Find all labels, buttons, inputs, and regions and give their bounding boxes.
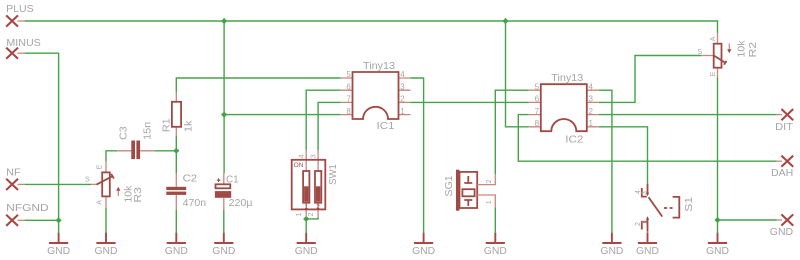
svg-text:4: 4 [299,154,306,158]
wire SW1 pin2 to junction [306,217,318,219]
wire IC1 pin6 to SW1 pin4 [306,90,340,150]
wire NFGND net [25,219,59,221]
capacitor C3 [117,122,155,159]
ground GND 8 [600,233,623,257]
node DIT [775,109,793,133]
wire IC1 pin4 to GND [411,78,424,233]
node MINUS [6,38,41,59]
node junction V+ right [502,18,508,24]
svg-text:MINUS: MINUS [6,38,40,49]
resistor R1 [161,93,194,136]
svg-text:3: 3 [400,82,405,91]
svg-text:1: 1 [296,213,303,217]
wire R1 top to IC1 pin5 [176,78,340,93]
svg-text:8: 8 [535,119,540,128]
node junction C3/R1/C2 [173,148,179,154]
svg-text:GND: GND [295,246,318,257]
node junction NFGND [56,217,62,223]
IC IC2 Tiny13 [529,73,599,145]
svg-text:IC1: IC1 [377,121,395,132]
svg-text:6: 6 [535,95,540,104]
svg-text:6: 6 [346,82,351,91]
svg-text:GND: GND [770,227,793,238]
ground GND 6 [412,233,435,257]
svg-text:8: 8 [346,107,351,116]
svg-text:Tiny13: Tiny13 [363,61,395,72]
wire IC2 pin3 to R2 wiper [599,56,701,103]
svg-text:DIT: DIT [775,122,793,133]
IC IC1 Tiny13 [341,61,411,132]
svg-text:E: E [96,164,103,169]
wire IC2 pin4 to GND [599,90,612,232]
svg-text:1k: 1k [184,120,195,132]
svg-text:7: 7 [346,95,351,104]
svg-text:5: 5 [535,82,540,91]
svg-text:1: 1 [305,203,309,210]
wire IC2 pin7 to DAH [518,115,776,162]
svg-text:S: S [85,177,90,184]
svg-text:2: 2 [308,213,315,217]
switch SW1 [292,151,340,218]
wire SG1 pin1 to GND [494,208,496,233]
capacitor C1 polarized [215,173,253,209]
ground GND 7 [484,233,507,257]
potentiometer R3 [85,162,144,208]
wire V+ vertical to C1 [223,21,225,173]
wire IC2 pin5 to SG1 pin2 [495,90,529,174]
svg-text:GND: GND [706,246,729,257]
node PLUS [6,4,34,27]
svg-text:A: A [96,200,103,205]
svg-text:2: 2 [316,203,320,210]
svg-text:1: 1 [486,200,493,204]
node NFGND [6,203,49,226]
svg-text:7: 7 [535,107,540,116]
svg-text:4: 4 [589,82,594,91]
svg-text:GND: GND [212,246,235,257]
svg-text:C2: C2 [183,173,198,184]
svg-text:S: S [698,49,703,56]
wire NF to R3 wiper [25,183,91,185]
svg-text:NFGND: NFGND [6,203,49,214]
ground GND 2 [95,233,118,257]
wire V+ to IC2 pin8 [506,21,529,127]
svg-text:1: 1 [400,107,405,116]
svg-text:GND: GND [636,246,659,257]
svg-text:1: 1 [589,119,594,128]
ground GND 1 [47,233,70,257]
ground GND 9 [636,233,659,257]
wire C1 bottom to GND [223,210,225,233]
svg-text:A: A [710,36,717,41]
wire C3 right to R1 branch [155,150,177,152]
ground GND 10 [706,233,729,257]
svg-text:2: 2 [400,95,405,104]
svg-text:GND: GND [412,246,435,257]
wire R2 bottom rail [717,78,719,233]
svg-text:SW1: SW1 [328,164,339,185]
ground GND 3 [165,233,188,257]
wire S1 bottom to GND [647,231,649,232]
wire IC2 pin1 to S1 [599,127,648,184]
svg-text:220µ: 220µ [229,198,253,209]
svg-text:3: 3 [589,95,594,104]
node DAH [771,156,793,179]
wire IC2 pin2 to DIT [599,114,777,116]
svg-text:15n: 15n [143,122,154,140]
svg-text:2: 2 [589,107,594,116]
svg-text:3: 3 [311,154,318,158]
svg-text:2: 2 [486,179,493,183]
svg-text:R2: R2 [748,42,759,58]
wire IC1 pin2 to IC2 pin6 [411,101,529,103]
svg-text:R1: R1 [161,118,172,132]
svg-text:10k: 10k [736,40,747,58]
svg-text:GND: GND [600,246,623,257]
svg-text:SG1: SG1 [444,175,455,196]
wire R3 top to C3 [106,151,117,162]
svg-text:NF: NF [6,168,21,179]
svg-text:PLUS: PLUS [6,4,34,15]
ground GND 5 [295,233,318,257]
svg-text:GND: GND [95,246,118,257]
svg-text:E: E [710,71,717,76]
svg-text:4: 4 [400,70,405,79]
svg-text:Tiny13: Tiny13 [551,73,583,84]
node junction V+ left [221,18,227,24]
svg-text:GND: GND [47,246,70,257]
wire SW1 pin1 to GND [305,217,307,232]
svg-text:470n: 470n [183,198,207,209]
wire IC1 pin8 VCC [224,114,340,116]
svg-text:C3: C3 [119,126,130,140]
svg-text:ON: ON [294,162,304,169]
svg-text:2: 2 [635,222,642,226]
wire IC1 pin7 to SW1 pin3 [318,102,340,150]
wire R3 bottom to GND [105,208,107,233]
node junction SW1 gnd [303,216,309,222]
potentiometer R2 [698,33,759,78]
capacitor C2 [166,173,206,209]
svg-text:IC2: IC2 [565,134,583,145]
svg-text:DAH: DAH [771,168,793,179]
buzzer SG1 [444,170,496,211]
wire PLUS rail [25,21,718,33]
svg-text:R3: R3 [133,187,144,203]
node junction VCC IC1 [221,112,227,118]
svg-text:C1: C1 [226,174,239,185]
wire GND net label wire [718,219,777,221]
svg-text:5: 5 [346,70,351,79]
wire MINUS net [25,53,59,232]
svg-text:S1: S1 [684,197,695,212]
ground GND 4 [212,233,235,257]
wire R1 bottom to C2 [175,136,177,173]
svg-text:3: 3 [642,191,649,195]
wire C2 bottom to GND [175,210,177,233]
svg-text:GND: GND [165,246,188,257]
node GND right [770,214,793,238]
svg-text:GND: GND [484,246,507,257]
switch S1 [635,184,695,232]
node NF [6,168,25,190]
node junction R2/GND [714,217,720,223]
svg-text:1: 1 [642,220,649,224]
